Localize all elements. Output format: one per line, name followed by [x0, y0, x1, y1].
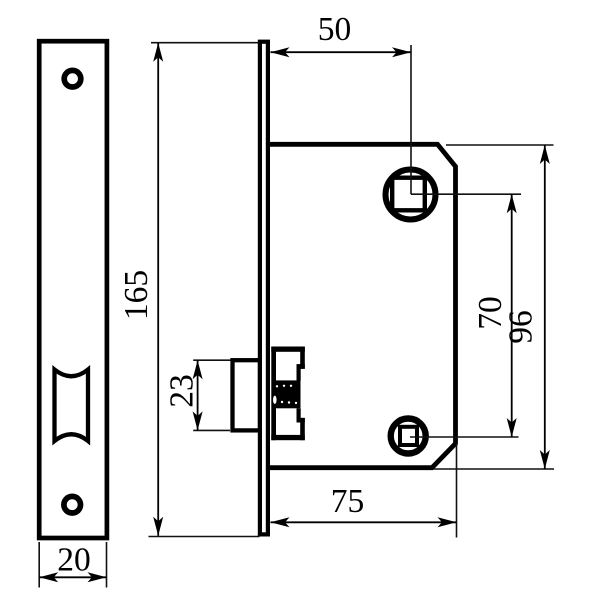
- latch tail bracket top right vertical: [300, 347, 305, 369]
- extension line 23 bottom: [193, 429, 230, 431]
- extension line 23 top: [193, 359, 230, 361]
- lock body outline: [268, 144, 456, 467]
- dimension line 20: [39, 572, 106, 582]
- latch bolt head: [233, 360, 261, 430]
- latch spring coil highlight dots: [273, 385, 297, 405]
- centre line vertical top spindle: [410, 45, 412, 194]
- svg-text:50: 50: [318, 11, 352, 48]
- latch tail bracket bottom step: [297, 418, 305, 423]
- dimension line 96: [540, 145, 550, 469]
- latch tail bracket mid vertical upper: [297, 364, 301, 380]
- latch tail bracket left bar: [271, 347, 276, 441]
- extension line top of faceplate: [151, 42, 259, 44]
- bottom spindle square: [400, 427, 417, 445]
- latch tail bracket bottom arm: [271, 435, 305, 440]
- extension line 20 left: [38, 542, 40, 588]
- dimension line 50: [271, 47, 412, 57]
- strike plate screw hole top: [64, 70, 81, 87]
- extension line 20 right: [106, 542, 108, 588]
- svg-text:75: 75: [331, 483, 365, 520]
- extension line bottom of faceplate: [149, 536, 260, 538]
- dimension line 70: [507, 194, 517, 437]
- svg-text:165: 165: [118, 270, 155, 320]
- top spindle square: [392, 178, 425, 211]
- top spindle hole circle: [386, 170, 436, 220]
- latch spring block: [272, 380, 301, 408]
- svg-text:23: 23: [164, 374, 201, 408]
- centre line horizontal bottom spindle: [410, 436, 519, 438]
- extension line body bottom right: [433, 468, 554, 470]
- latch tail bracket mid vertical lower: [297, 408, 301, 422]
- strike plate latch cutout: [55, 370, 89, 442]
- dimension line 75: [271, 517, 457, 527]
- bottom spindle hole circle: [391, 419, 426, 454]
- latch tail bracket bottom right vertical: [300, 418, 305, 440]
- extension line 75 right: [456, 443, 458, 538]
- extension line body top right: [446, 144, 554, 146]
- svg-text:96: 96: [503, 310, 540, 344]
- strike plate outline: [39, 41, 107, 538]
- dimension line 23: [193, 360, 203, 430]
- lock faceplate: [260, 42, 268, 535]
- strike plate screw hole bottom: [64, 496, 81, 513]
- svg-text:20: 20: [57, 542, 91, 579]
- dimension line 165: [153, 43, 163, 536]
- centre line horizontal top spindle: [411, 193, 521, 195]
- latch tail bracket top arm: [271, 347, 305, 352]
- latch tail bracket top step: [297, 364, 305, 369]
